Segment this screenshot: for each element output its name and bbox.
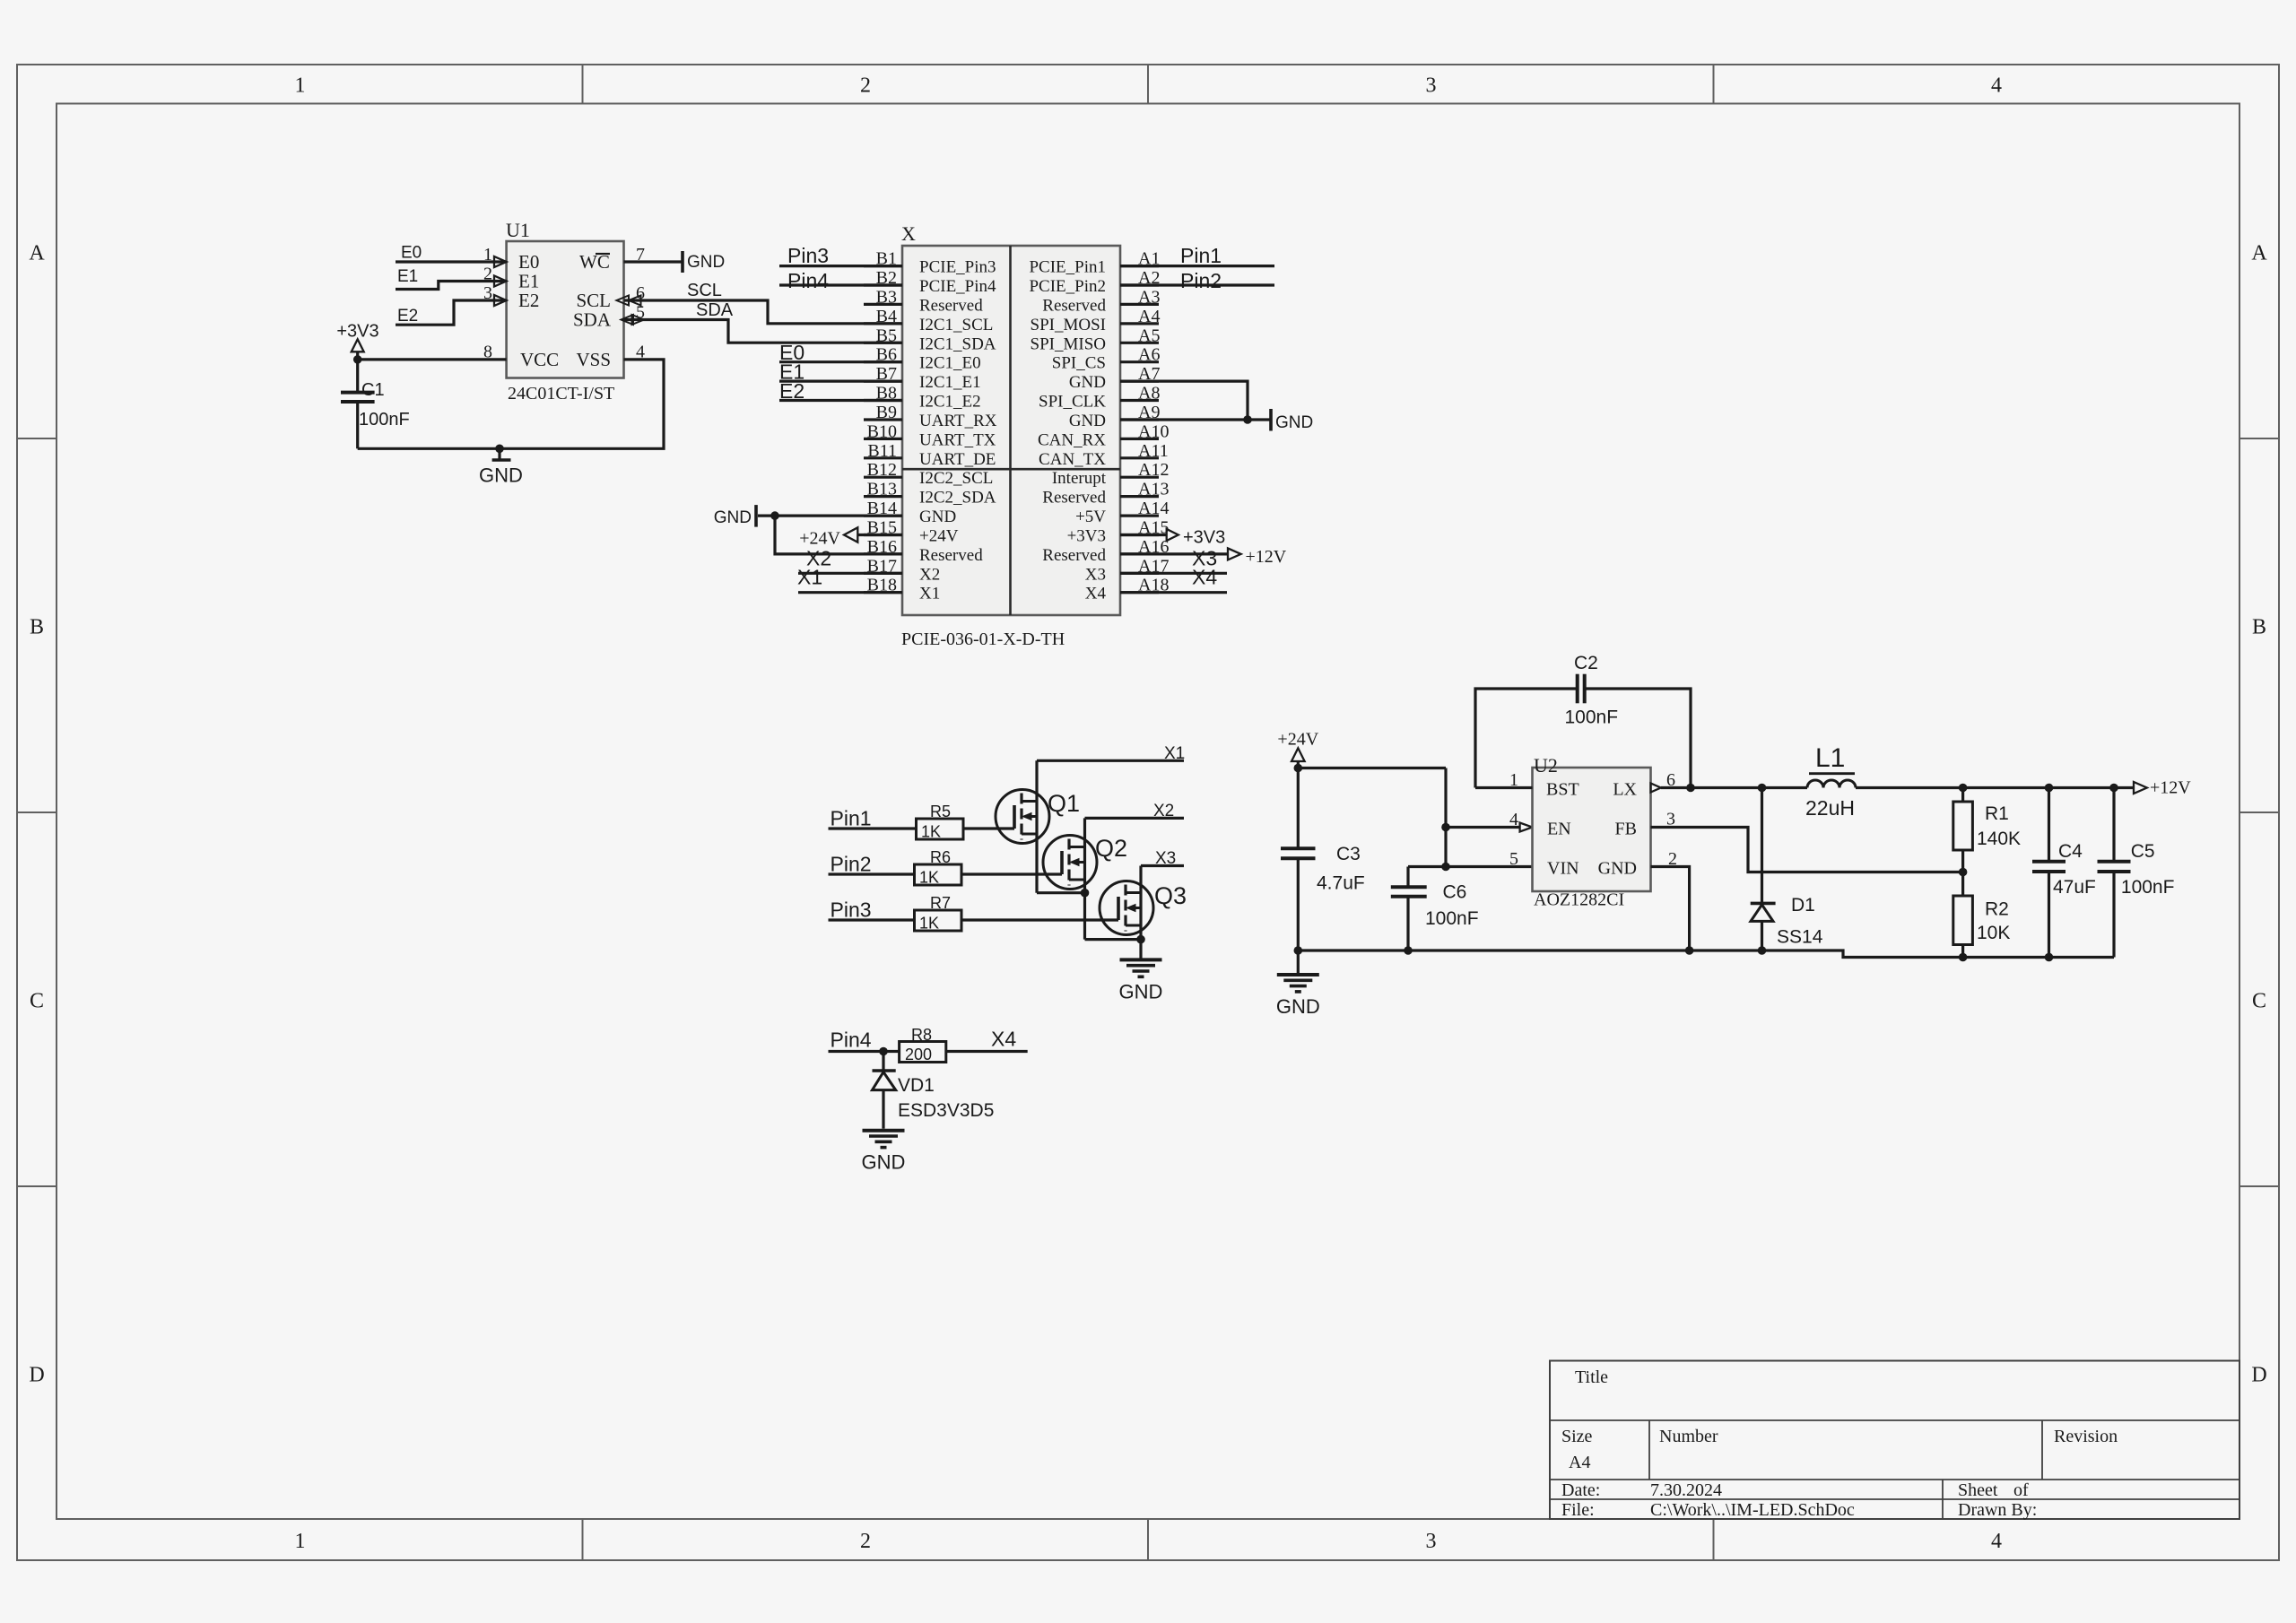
svg-text:5: 5 <box>1509 849 1518 869</box>
wire Q1 source to Q2 source node <box>1037 891 1085 894</box>
capacitor C4 47uF <box>2048 788 2050 862</box>
junction C4 <box>2045 784 2054 793</box>
power port +12V arrow <box>2134 782 2147 794</box>
pin A14 +5V <box>1120 514 1159 516</box>
svg-text:2: 2 <box>860 1530 871 1553</box>
svg-text:File:: File: <box>1561 1500 1595 1520</box>
capacitor C2 100nF <box>1475 689 1578 788</box>
svg-text:X3: X3 <box>1085 565 1106 584</box>
svg-text:B9: B9 <box>876 403 897 422</box>
svg-text:4: 4 <box>1991 74 2002 98</box>
svg-text:GND: GND <box>1069 412 1106 430</box>
svg-text:Size: Size <box>1561 1427 1593 1446</box>
svg-text:VSS: VSS <box>576 349 611 370</box>
junction +3V3/C1 <box>353 355 362 364</box>
resistor R6 1K <box>915 864 962 885</box>
wire GND rail <box>1298 950 2114 958</box>
wire A17 to X3 <box>1120 572 1227 575</box>
pin A12 Interupt <box>1120 476 1159 479</box>
svg-text:FB: FB <box>1615 820 1637 839</box>
svg-text:UART_TX: UART_TX <box>919 430 996 449</box>
svg-text:Reserved: Reserved <box>1042 296 1106 315</box>
power port GND bar at A9 <box>1269 409 1273 431</box>
svg-text:B13: B13 <box>867 480 897 499</box>
svg-text:E0: E0 <box>518 251 539 273</box>
svg-text:D: D <box>2251 1364 2266 1387</box>
svg-text:R1: R1 <box>1985 803 2009 824</box>
svg-text:E2: E2 <box>779 379 804 403</box>
wire X2 to B17 <box>798 572 902 575</box>
wire X1 to B18 <box>798 591 902 594</box>
wire E1 to U1 pin2 <box>396 282 507 290</box>
svg-text:A12: A12 <box>1138 460 1169 480</box>
svg-text:100nF: 100nF <box>2121 877 2175 898</box>
svg-text:47uF: 47uF <box>2053 877 2096 898</box>
wire A2 to Pin2 <box>1120 283 1274 286</box>
wire Pin3 to B1 <box>779 265 902 267</box>
wire A18 to X4 <box>1120 591 1227 594</box>
svg-text:VD1: VD1 <box>898 1075 935 1096</box>
svg-text:X2: X2 <box>1153 802 1174 820</box>
connector X PCIE-036-01-X-D-TH <box>902 246 1120 615</box>
wire +24V port to B15 <box>857 534 902 536</box>
svg-text:A14: A14 <box>1138 499 1169 518</box>
svg-text:I2C1_E2: I2C1_E2 <box>919 393 981 412</box>
junction C6/GND rail <box>1404 946 1413 955</box>
wire SCL net U1 to X B4 <box>624 300 903 324</box>
svg-text:C: C <box>30 990 44 1013</box>
pin A2 PCIE_Pin2 <box>1120 283 1159 286</box>
junction C4/GND rail <box>2045 953 2054 962</box>
svg-text:I2C1_E0: I2C1_E0 <box>919 354 981 373</box>
pin B12 I2C2_SCL <box>864 476 902 479</box>
pin B5 I2C1_SDA <box>864 342 902 344</box>
power port GND earth below VD1 <box>863 1129 905 1133</box>
svg-text:+3V3: +3V3 <box>1183 528 1225 548</box>
svg-text:R6: R6 <box>930 848 951 866</box>
wire A9 to GND <box>1120 418 1271 421</box>
title block <box>1550 1361 2239 1520</box>
svg-text:SPI_MOSI: SPI_MOSI <box>1031 316 1106 334</box>
transistor Q3 N-MOSFET <box>1100 881 1153 935</box>
svg-text:VCC: VCC <box>520 349 559 370</box>
svg-text:Reserved: Reserved <box>919 546 983 565</box>
wire +3V3 to U1 VCC pin8 <box>358 358 507 360</box>
svg-text:X2: X2 <box>919 565 940 584</box>
svg-text:200: 200 <box>905 1046 932 1063</box>
svg-text:4.7uF: 4.7uF <box>1317 873 1365 894</box>
svg-text:+12V: +12V <box>1246 547 1287 567</box>
svg-text:C4: C4 <box>2058 841 2083 862</box>
wire A1 to Pin1 <box>1120 265 1274 267</box>
wire R5 to Q1 gate <box>963 827 1014 829</box>
power port +24V at B15 <box>844 527 857 542</box>
pin A5 SPI_MISO <box>1120 342 1159 344</box>
wire Q1 drain/source vertical <box>1035 760 1038 892</box>
svg-text:B10: B10 <box>867 421 897 441</box>
junction VIN <box>1441 863 1450 872</box>
svg-text:C3: C3 <box>1336 844 1361 864</box>
svg-text:Drawn By:: Drawn By: <box>1958 1500 2037 1520</box>
svg-text:C: C <box>2252 990 2266 1013</box>
svg-text:Reserved: Reserved <box>1042 489 1106 508</box>
svg-text:ESD3V3D5: ESD3V3D5 <box>898 1100 994 1121</box>
svg-text:R7: R7 <box>930 894 951 912</box>
junction B14/B16 gnd <box>770 511 779 520</box>
svg-text:GND: GND <box>714 508 752 527</box>
wire Pin3 to R7 <box>829 918 915 921</box>
junction +24V/C3 <box>1294 764 1303 773</box>
pin B14 GND <box>864 514 902 516</box>
connector center divider <box>1009 246 1012 615</box>
wire E0 to U1 pin1 <box>396 260 507 263</box>
svg-text:A4: A4 <box>1569 1453 1590 1472</box>
svg-text:C6: C6 <box>1443 882 1467 903</box>
svg-text:B: B <box>2252 616 2266 639</box>
svg-text:EN: EN <box>1547 820 1571 839</box>
diode D1 SS14 <box>1761 788 1763 904</box>
wire FB to divider <box>1651 828 1963 872</box>
svg-text:100nF: 100nF <box>359 410 410 430</box>
pin A16 Reserved <box>1120 552 1159 555</box>
svg-text:C:\Work\..\IM-LED.SchDoc: C:\Work\..\IM-LED.SchDoc <box>1650 1500 1855 1520</box>
svg-text:X4: X4 <box>991 1028 1016 1051</box>
wire R2 to GND rail <box>1961 945 1964 958</box>
svg-text:X1: X1 <box>797 566 822 589</box>
svg-text:GND: GND <box>1069 373 1106 392</box>
svg-text:E1: E1 <box>518 271 539 292</box>
svg-text:X4: X4 <box>1085 585 1107 603</box>
wire A15 to +3V3 port <box>1120 534 1167 536</box>
svg-text:SS14: SS14 <box>1777 927 1823 948</box>
svg-text:SCL: SCL <box>576 290 611 311</box>
pin A17 X3 <box>1120 572 1159 575</box>
svg-text:L1: L1 <box>1815 743 1845 773</box>
svg-text:+24V: +24V <box>1277 730 1318 750</box>
junction R2/GND rail <box>1959 953 1968 962</box>
svg-text:Number: Number <box>1659 1427 1718 1446</box>
svg-text:PCIE-036-01-X-D-TH: PCIE-036-01-X-D-TH <box>901 629 1065 649</box>
svg-text:3: 3 <box>1426 74 1437 98</box>
svg-text:A13: A13 <box>1138 480 1169 499</box>
transistor Q1 N-MOSFET <box>996 790 1049 844</box>
svg-text:+24V: +24V <box>799 529 840 549</box>
svg-text:BST: BST <box>1546 780 1579 800</box>
svg-text:GND: GND <box>1119 981 1163 1003</box>
junction Q1/Q2 source <box>1081 889 1090 898</box>
wire to U2 VIN <box>1408 865 1533 868</box>
wire Q2 source to Q3 source node <box>1085 938 1142 941</box>
wire E2 to U1 pin3 <box>396 300 507 325</box>
svg-text:D: D <box>29 1364 44 1387</box>
resistor R8 200 <box>900 1042 946 1063</box>
svg-text:3: 3 <box>1426 1530 1437 1553</box>
power port GND earth below C3 <box>1297 950 1300 975</box>
junction EN <box>1441 823 1450 832</box>
capacitor C6 100nF <box>1406 867 1409 888</box>
wire GND to B14 <box>758 514 902 516</box>
pin B4 I2C1_SCL <box>864 322 902 325</box>
svg-text:Pin3: Pin3 <box>831 898 872 922</box>
junction LX/D1 <box>1758 784 1767 793</box>
junction Q3 source/GND <box>1136 935 1145 944</box>
wire gnd loop to B16 <box>775 516 902 554</box>
wire R6 to Q2 gate <box>961 872 1062 875</box>
svg-text:7.30.2024: 7.30.2024 <box>1650 1480 1722 1500</box>
resistor R2 10K <box>1953 896 1973 945</box>
pin B18 X1 <box>864 591 902 594</box>
transistor Q2 N-MOSFET <box>1043 836 1097 890</box>
svg-text:UART_RX: UART_RX <box>919 412 997 430</box>
svg-text:A: A <box>2251 242 2267 265</box>
svg-text:CAN_TX: CAN_TX <box>1039 450 1106 469</box>
svg-text:Sheet: Sheet <box>1958 1480 1998 1500</box>
svg-text:100nF: 100nF <box>1565 707 1619 728</box>
svg-text:E2: E2 <box>397 307 418 325</box>
wire R8 to X4 <box>946 1050 1028 1053</box>
junction LX/C2 <box>1686 784 1695 793</box>
pin B11 UART_DE <box>864 456 902 459</box>
wire Q1 drain to X1 <box>1037 759 1184 762</box>
wire Pin4 to B2 <box>779 283 902 286</box>
power port GND bar at B14 <box>754 505 758 527</box>
svg-text:1: 1 <box>295 1530 306 1553</box>
svg-text:R2: R2 <box>1985 899 2009 920</box>
svg-text:GND: GND <box>687 253 725 272</box>
power port GND below U1 <box>498 448 500 460</box>
svg-text:SPI_MISO: SPI_MISO <box>1031 334 1106 353</box>
pin B15 +24V <box>864 534 902 536</box>
svg-text:C2: C2 <box>1574 653 1598 673</box>
svg-text:1: 1 <box>295 74 306 98</box>
resistor R7 1K <box>915 910 962 931</box>
wire C2 to U2 BST <box>1475 786 1533 789</box>
svg-text:UART_DE: UART_DE <box>919 450 996 469</box>
wire Pin2 to R6 <box>829 872 915 875</box>
svg-text:X3: X3 <box>1155 849 1176 868</box>
wire +24V rail <box>1298 767 1446 769</box>
power port GND earth below Q3 <box>1139 940 1142 959</box>
inductor L1 22uH <box>1807 780 1856 788</box>
svg-text:U2: U2 <box>1534 754 1558 777</box>
junction C5 <box>2109 784 2118 793</box>
pin B1 PCIE_Pin3 <box>864 265 902 267</box>
svg-text:SPI_CS: SPI_CS <box>1052 354 1106 373</box>
svg-text:B11: B11 <box>867 441 897 461</box>
svg-text:B3: B3 <box>876 287 897 307</box>
pin A1 PCIE_Pin1 <box>1120 265 1159 267</box>
pin B10 UART_TX <box>864 438 902 440</box>
wire Q3 drain to X3 <box>1141 864 1184 867</box>
pin A6 SPI_CS <box>1120 360 1159 363</box>
svg-text:GND: GND <box>479 464 523 487</box>
svg-text:A: A <box>29 242 45 265</box>
wire E0 to B6 <box>779 360 902 363</box>
pin A8 SPI_CLK <box>1120 399 1159 402</box>
svg-text:4: 4 <box>1509 810 1518 829</box>
pin B8 I2C1_E2 <box>864 399 902 402</box>
svg-text:B5: B5 <box>876 325 897 345</box>
pin A18 X4 <box>1120 591 1159 594</box>
wire A16 to +12V port <box>1120 552 1228 555</box>
IC U1 24C01CT-I/ST body <box>507 241 624 378</box>
pin arrow EN <box>1520 823 1533 832</box>
svg-text:GND: GND <box>862 1151 906 1174</box>
svg-text:U1: U1 <box>506 219 530 241</box>
wire A7 gnd loop <box>1120 381 1248 420</box>
svg-text:PCIE_Pin3: PCIE_Pin3 <box>919 258 996 277</box>
pin A10 CAN_RX <box>1120 438 1159 440</box>
svg-text:SDA: SDA <box>696 300 734 320</box>
svg-text:B: B <box>30 616 44 639</box>
svg-text:GND: GND <box>919 508 956 526</box>
wire Pin4 to R8 <box>829 1050 900 1053</box>
svg-text:B12: B12 <box>867 460 897 480</box>
svg-text:X: X <box>901 222 916 245</box>
svg-text:A8: A8 <box>1138 384 1160 404</box>
svg-text:1K: 1K <box>919 869 939 887</box>
capacitor C3 4.7uF <box>1297 768 1300 849</box>
svg-text:PCIE_Pin1: PCIE_Pin1 <box>1029 258 1106 277</box>
power port +12V at A16 <box>1228 548 1241 560</box>
svg-text:Pin3: Pin3 <box>787 244 829 267</box>
wire LX to L1 <box>1661 786 1807 789</box>
svg-text:LX: LX <box>1613 780 1637 800</box>
svg-text:100nF: 100nF <box>1425 908 1479 929</box>
svg-text:GND: GND <box>1275 413 1313 432</box>
junction C3/GND rail <box>1294 946 1303 955</box>
svg-text:Reserved: Reserved <box>919 296 983 315</box>
wire to U2 EN <box>1446 826 1520 829</box>
wire Q2 drain/source vertical <box>1083 818 1086 939</box>
pin B7 I2C1_E1 <box>864 380 902 383</box>
wire SDA net U1 to X B5 <box>624 320 903 343</box>
svg-text:SDA: SDA <box>573 309 612 331</box>
svg-text:Pin1: Pin1 <box>1180 244 1222 267</box>
svg-text:AOZ1282CI: AOZ1282CI <box>1534 890 1624 910</box>
svg-text:Date:: Date: <box>1561 1480 1600 1500</box>
svg-text:A10: A10 <box>1138 421 1169 441</box>
wire to R1 <box>1961 788 1964 803</box>
wire Q2 drain to X2 <box>1085 817 1185 820</box>
svg-text:I2C1_SDA: I2C1_SDA <box>919 334 996 353</box>
svg-text:+3V3: +3V3 <box>1067 527 1106 546</box>
svg-text:R8: R8 <box>911 1026 932 1044</box>
svg-text:E0: E0 <box>401 244 422 263</box>
svg-text:GND: GND <box>1598 859 1637 879</box>
wire L1 to +12V rail <box>1856 786 2134 789</box>
connector row divider <box>902 468 1120 471</box>
pin B13 I2C2_SDA <box>864 495 902 498</box>
svg-text:SCL: SCL <box>687 281 722 300</box>
wire +24V down to EN/VIN <box>1444 768 1447 867</box>
svg-text:1K: 1K <box>921 823 941 841</box>
svg-text:C1: C1 <box>361 380 385 400</box>
svg-text:Revision: Revision <box>2054 1427 2118 1446</box>
power port +3V3 at A15 <box>1167 529 1178 541</box>
svg-text:E2: E2 <box>518 290 539 311</box>
svg-text:A4: A4 <box>1138 307 1160 326</box>
pin A3 Reserved <box>1120 303 1159 306</box>
junction R1 <box>1959 784 1968 793</box>
pin A13 Reserved <box>1120 495 1159 498</box>
diode VD1 ESD3V3D5 <box>882 1052 884 1072</box>
svg-text:+12V: +12V <box>2150 778 2191 798</box>
svg-text:PCIE_Pin4: PCIE_Pin4 <box>919 277 996 296</box>
svg-text:E1: E1 <box>397 267 418 286</box>
pin B6 I2C1_E0 <box>864 360 902 363</box>
svg-text:B4: B4 <box>876 307 897 326</box>
wire U1 WC to GND <box>624 260 683 263</box>
pin B2 PCIE_Pin4 <box>864 283 902 286</box>
wire Pin1 to R5 <box>829 827 917 829</box>
svg-text:Q1: Q1 <box>1048 790 1080 817</box>
wire R7 to Q3 gate <box>961 918 1118 921</box>
svg-text:Pin2: Pin2 <box>1180 269 1222 292</box>
svg-text:of: of <box>2013 1480 2029 1500</box>
svg-text:24C01CT-I/ST: 24C01CT-I/ST <box>508 384 614 404</box>
svg-text:X4: X4 <box>1192 566 1217 589</box>
svg-text:4: 4 <box>1991 1530 2002 1553</box>
pin A15 +3V3 <box>1120 534 1159 536</box>
svg-text:R5: R5 <box>930 803 951 820</box>
svg-text:Q3: Q3 <box>1154 882 1187 909</box>
svg-text:A5: A5 <box>1138 325 1160 345</box>
svg-text:A11: A11 <box>1138 441 1169 461</box>
svg-text:A6: A6 <box>1138 345 1160 365</box>
pin A11 CAN_TX <box>1120 456 1159 459</box>
power port GND bar at U1 pin7 <box>681 251 684 273</box>
wire E1 to B7 <box>779 380 902 383</box>
svg-text:Pin4: Pin4 <box>787 269 829 292</box>
junction U2 GND/rail <box>1685 946 1694 955</box>
svg-text:Pin4: Pin4 <box>831 1028 872 1052</box>
svg-text:A3: A3 <box>1138 287 1160 307</box>
svg-text:I2C2_SCL: I2C2_SCL <box>919 469 993 488</box>
resistor R5 1K <box>917 819 964 839</box>
svg-text:+24V: +24V <box>919 527 959 546</box>
svg-text:+5V: +5V <box>1075 508 1106 526</box>
svg-text:1K: 1K <box>919 915 939 933</box>
svg-text:VIN: VIN <box>1547 859 1579 879</box>
svg-text:Interupt: Interupt <box>1052 469 1107 488</box>
svg-text:Reserved: Reserved <box>1042 546 1106 565</box>
pin arrow LX <box>1651 784 1661 793</box>
svg-text:GND: GND <box>1276 995 1320 1018</box>
svg-text:X1: X1 <box>1164 744 1185 763</box>
svg-text:Pin2: Pin2 <box>831 853 872 876</box>
svg-text:PCIE_Pin2: PCIE_Pin2 <box>1029 277 1106 296</box>
svg-text:C5: C5 <box>2131 841 2155 862</box>
svg-text:X1: X1 <box>919 585 940 603</box>
capacitor C5 100nF <box>2112 788 2115 862</box>
pin A4 SPI_MOSI <box>1120 322 1159 325</box>
capacitor C1 100nF <box>356 360 359 393</box>
junction Pin4/VD1 <box>879 1047 888 1056</box>
svg-text:140K: 140K <box>1977 829 2021 849</box>
pin B16 Reserved <box>864 552 902 555</box>
wire E2 to B8 <box>779 399 902 402</box>
junction GND <box>495 445 504 454</box>
pin B17 X2 <box>864 572 902 575</box>
pin B3 Reserved <box>864 303 902 306</box>
svg-text:D1: D1 <box>1791 895 1815 916</box>
wire R1 to R2 <box>1961 850 1964 896</box>
svg-text:I2C2_SDA: I2C2_SDA <box>919 489 996 508</box>
pin A7 GND <box>1120 380 1159 383</box>
svg-text:CAN_RX: CAN_RX <box>1038 430 1106 449</box>
svg-text:I2C1_E1: I2C1_E1 <box>919 373 981 392</box>
